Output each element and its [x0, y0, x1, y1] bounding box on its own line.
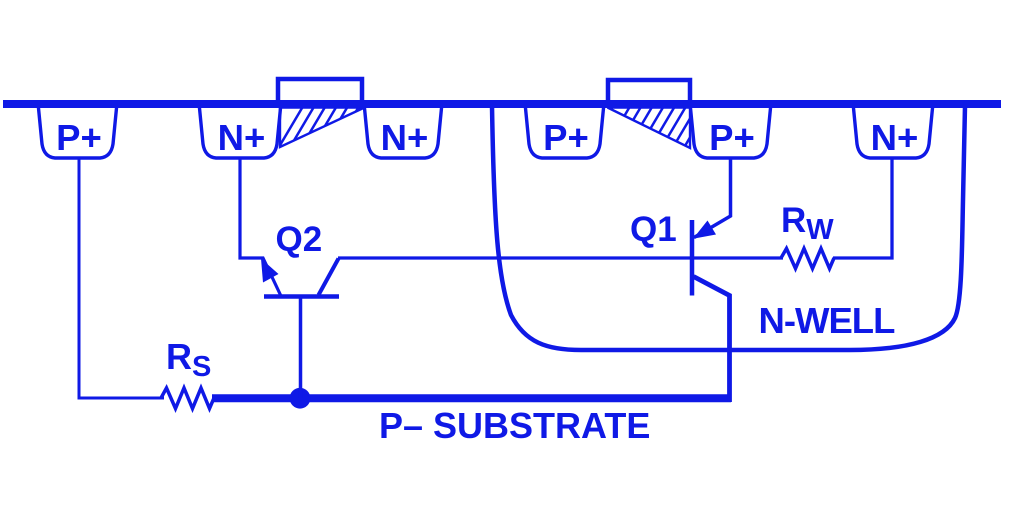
- transistor Q1 (vertical PNP): [692, 220, 730, 402]
- wire from N+ emitter down to Q2: [240, 158, 281, 295]
- wire RW to N+ tap: [833, 158, 892, 258]
- svg-text:RW: RW: [781, 201, 834, 246]
- gate of Q2 (poly gate rectangle): [278, 79, 362, 104]
- N+ well (n-well tap): [853, 103, 933, 158]
- wire from P+ tap down to RS: [79, 158, 164, 398]
- svg-text:P+: P+: [543, 117, 589, 158]
- resistor RW: [781, 249, 834, 269]
- substrate wire (thick): [212, 394, 731, 402]
- N+ well (NMOS drain): [364, 103, 442, 158]
- svg-text:N+: N+: [381, 117, 429, 158]
- N-well boundary: [492, 106, 965, 350]
- svg-text:Q1: Q1: [630, 210, 677, 249]
- wire from P+ emitter down to Q1: [694, 158, 731, 238]
- gate of Q1 (poly gate rectangle): [608, 80, 690, 104]
- P+ well (PMOS drain): [525, 103, 604, 158]
- svg-text:N-WELL: N-WELL: [759, 300, 896, 341]
- wire Q1 base to RW: [692, 256, 783, 259]
- wire Q2 base to substrate node: [299, 296, 303, 398]
- svg-text:N+: N+: [871, 117, 919, 158]
- svg-text:RS: RS: [166, 336, 211, 383]
- resistor RS: [161, 388, 214, 409]
- N+ well (Q2 emitter diffusion): [199, 103, 281, 158]
- svg-text:P– SUBSTRATE: P– SUBSTRATE: [379, 405, 650, 446]
- svg-text:N+: N+: [218, 117, 266, 158]
- transistor Q2 (lateral NPN): [261, 259, 339, 297]
- channel hatch under Q1 gate: [603, 103, 710, 152]
- wire Q2 collector to Q1 base: [338, 256, 692, 259]
- P+ well (substrate tap, left): [38, 103, 117, 158]
- junction node (substrate tap node): [290, 388, 311, 409]
- P+ well (Q1 emitter diffusion): [690, 103, 771, 158]
- svg-text:P+: P+: [709, 117, 755, 158]
- substrate surface line: [3, 100, 1001, 108]
- svg-text:Q2: Q2: [276, 220, 323, 259]
- svg-text:P+: P+: [56, 117, 102, 158]
- channel hatch under Q2 gate: [276, 103, 383, 152]
